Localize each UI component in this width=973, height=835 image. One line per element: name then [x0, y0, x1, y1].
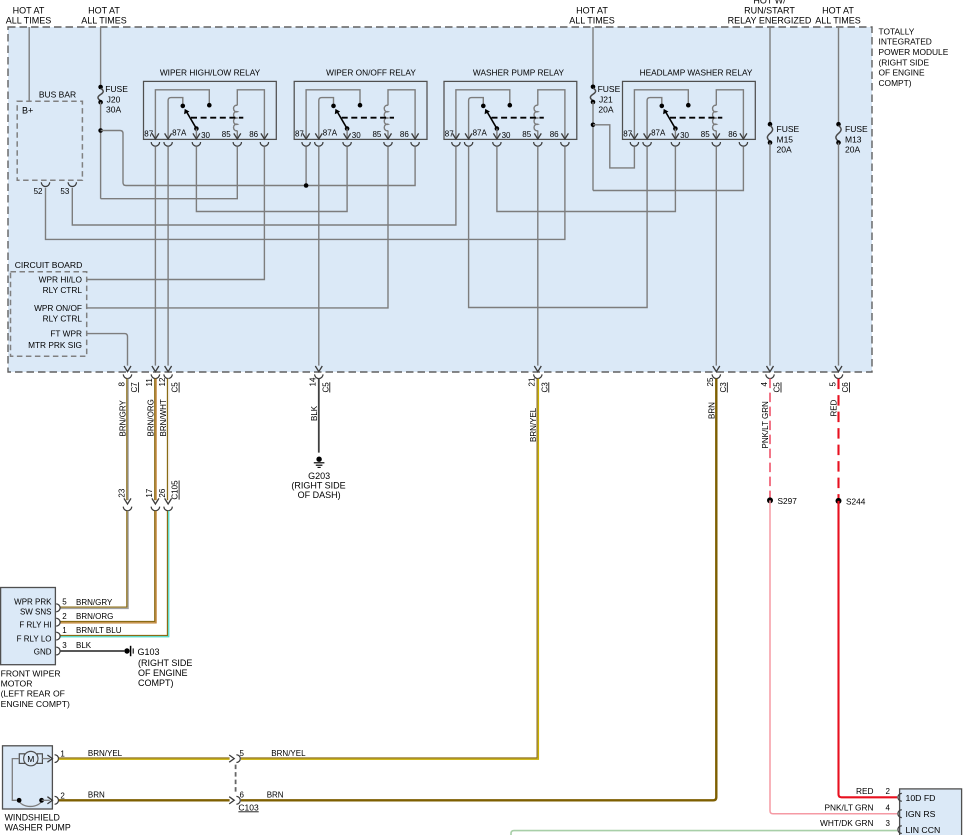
svg-text:20A: 20A: [598, 105, 613, 115]
svg-text:ALL TIMES: ALL TIMES: [81, 16, 127, 26]
svg-text:BLK: BLK: [310, 405, 319, 421]
svg-text:30A: 30A: [106, 105, 121, 115]
svg-text:RED: RED: [856, 786, 874, 796]
svg-text:87A: 87A: [172, 128, 187, 137]
svg-text:OF ENGINE: OF ENGINE: [879, 68, 925, 78]
connector output pin 14 C5: [309, 366, 331, 393]
wire: fuse J21 to relay K4 pin 87: [593, 125, 634, 168]
svg-text:FUSE: FUSE: [105, 84, 128, 94]
washer pump motor symbol: [19, 751, 42, 765]
wire: relay K2 pin 87A to output 14: [318, 146, 320, 365]
connector C105: [117, 480, 179, 511]
module pin 3 (WHT/DK GRN LIN CCN): [820, 818, 902, 833]
wire: coil top rail to pin 86: [388, 90, 415, 140]
contact dot (common feed): [686, 103, 691, 108]
wire: pin 87 to common contact rail: [456, 90, 510, 140]
svg-text:BRN/ORG: BRN/ORG: [146, 399, 155, 436]
svg-text:87A: 87A: [323, 128, 338, 137]
svg-text:17: 17: [145, 488, 154, 497]
svg-text:BRN: BRN: [267, 791, 284, 800]
svg-text:2: 2: [62, 612, 67, 621]
bus bar B+: [17, 90, 82, 181]
svg-text:B+: B+: [22, 106, 33, 116]
svg-text:GND: GND: [34, 647, 52, 656]
wire: coil bottom to pin 85: [387, 131, 389, 140]
svg-text:25: 25: [706, 377, 715, 386]
svg-text:HOT AT: HOT AT: [822, 6, 854, 16]
svg-text:BRN/ORG: BRN/ORG: [76, 612, 113, 621]
svg-text:M: M: [27, 754, 34, 764]
svg-text:C5: C5: [321, 382, 330, 393]
motor pin 1 F RLY LO: [56, 626, 122, 640]
svg-text:WIPER HIGH/LOW RELAY: WIPER HIGH/LOW RELAY: [160, 68, 261, 78]
svg-text:MOTOR: MOTOR: [1, 679, 33, 689]
svg-text:2: 2: [886, 787, 891, 796]
svg-text:BRN/WHT: BRN/WHT: [159, 399, 168, 436]
relay K3 WASHER PUMP RELAY: [444, 68, 577, 147]
svg-text:PNK/LT GRN: PNK/LT GRN: [761, 401, 770, 448]
pin 86 arrow and connector cup: [412, 133, 419, 139]
contact dot (common feed): [207, 103, 212, 108]
svg-text:30: 30: [201, 131, 210, 140]
contact dot (pin 30 pivot): [673, 126, 678, 131]
wire BRN/GRY: C105-23 to motor pin 5: [60, 511, 127, 607]
svg-text:23: 23: [117, 488, 126, 497]
module pin 4 (BLK/WHT, clipped): [837, 833, 902, 835]
svg-text:85: 85: [222, 130, 231, 139]
module pin 4 (PNK/LT GRN IGN RS): [824, 802, 901, 817]
svg-text:85: 85: [701, 130, 710, 139]
connector output pin 21 C3: [528, 366, 550, 393]
svg-text:RED: RED: [830, 399, 839, 416]
relay coil: [713, 105, 717, 130]
wire: WPR HI/LO RLY CTRL to relay K1 pin 86: [87, 146, 265, 279]
svg-text:(RIGHT SIDE: (RIGHT SIDE: [138, 658, 192, 668]
svg-text:BLK: BLK: [76, 641, 92, 650]
motor pin 3 GND: [56, 641, 92, 655]
svg-text:C5: C5: [773, 382, 782, 393]
svg-text:1: 1: [60, 750, 65, 759]
wire: feed to fuse M15: [769, 27, 771, 124]
contact dot (common feed): [508, 103, 513, 108]
wire: pin 87 to common contact rail: [634, 90, 688, 140]
wire: coil top rail to pin 86: [716, 90, 743, 140]
washer pump pin 1: [55, 749, 123, 763]
connector output pin 5 C6: [828, 366, 850, 393]
svg-text:RUN/START: RUN/START: [744, 6, 795, 16]
relay box: [444, 81, 577, 139]
svg-text:2: 2: [60, 791, 65, 800]
pin 87 arrow and connector cup: [152, 133, 159, 139]
contact dot (common feed): [358, 103, 363, 108]
svg-text:TOTALLY: TOTALLY: [879, 26, 915, 36]
wire: relay K1 pin 87A to output 12: [167, 146, 169, 365]
fuse J20 30A: [98, 84, 128, 115]
svg-text:F RLY HI: F RLY HI: [19, 621, 51, 630]
svg-text:BRN/YEL: BRN/YEL: [529, 407, 538, 442]
wire BRN/YEL: output 21 down to washer pump run: [241, 379, 537, 758]
wire: pin 87A to NC contact: [168, 98, 183, 140]
wire: feed to fuse J21: [592, 27, 594, 87]
wire BRN/LT BLU: C105-26 to motor pin 1: [60, 511, 168, 636]
svg-text:ALL TIMES: ALL TIMES: [6, 16, 52, 26]
wire: fuse M15 to output 4: [769, 143, 771, 366]
svg-text:CIRCUIT BOARD: CIRCUIT BOARD: [15, 260, 83, 270]
pin 86 arrow and connector cup: [561, 133, 568, 139]
svg-text:WPR PRK: WPR PRK: [14, 597, 52, 606]
pin 87 arrow and connector cup: [452, 133, 459, 139]
svg-text:LIN CCN: LIN CCN: [906, 825, 941, 835]
svg-text:HEADLAMP WASHER RELAY: HEADLAMP WASHER RELAY: [640, 68, 753, 78]
wire: coil top rail to pin 86: [538, 90, 565, 140]
svg-text:4: 4: [760, 382, 769, 387]
svg-text:C5: C5: [171, 382, 180, 393]
svg-text:30: 30: [680, 131, 689, 140]
svg-text:M15: M15: [777, 134, 794, 144]
switch armature arm: [487, 111, 497, 129]
svg-text:87A: 87A: [473, 128, 488, 137]
connector output pin 25 C3: [706, 366, 728, 393]
bus bar pin 52: [34, 182, 50, 196]
svg-text:WPR HI/LO: WPR HI/LO: [39, 275, 83, 285]
relay K1 WIPER HIGH/LOW RELAY: [144, 68, 277, 147]
svg-text:S297: S297: [778, 496, 798, 506]
switch armature arm: [665, 111, 675, 129]
svg-text:3: 3: [886, 819, 891, 828]
wire: relay K1 pin 87 to output 11: [154, 146, 156, 365]
wire: relay K3 pin 85 to output 21: [537, 146, 539, 365]
svg-text:11: 11: [145, 378, 154, 387]
label: HOT AT ALL TIMES (bus bar feed): [6, 6, 52, 26]
svg-text:26: 26: [158, 488, 167, 497]
wire: pin 87A to NC contact: [469, 98, 484, 140]
relay box: [623, 81, 756, 139]
wire BLK: motor pin 3 to ground G103: [60, 650, 125, 652]
svg-text:86: 86: [400, 130, 409, 139]
dashed actuation link arm-to-coil: [342, 117, 394, 119]
svg-text:SW SNS: SW SNS: [20, 607, 52, 616]
wire: pin 87 to common contact rail: [306, 90, 360, 140]
svg-text:ALL TIMES: ALL TIMES: [815, 16, 861, 26]
pin 87A arrow and connector cup: [315, 133, 322, 139]
pin 30 arrow and connector cup: [493, 133, 500, 139]
connector output pin 11: [145, 366, 159, 387]
svg-text:20A: 20A: [777, 145, 792, 155]
wire BRN/ORG: C105-17 to motor pin 2: [60, 511, 155, 622]
wire: feed to fuse M13: [838, 27, 840, 124]
svg-text:52: 52: [34, 187, 43, 196]
splice S297: [767, 496, 797, 506]
label: HOT AT ALL TIMES (fuse J20 feed): [81, 6, 127, 26]
connector output pin 12 C5: [158, 366, 180, 393]
wire: fuse J20 to relay K2 pins 87/86: [101, 131, 416, 186]
svg-text:10D FD: 10D FD: [906, 793, 936, 803]
motor pin 2 F RLY HI: [56, 612, 113, 626]
circuit board: [11, 260, 87, 356]
switch armature arm: [186, 111, 196, 129]
fuse M13 20A: [836, 122, 868, 155]
wire: pin 87A to NC contact: [319, 98, 334, 140]
svg-text:BUS BAR: BUS BAR: [39, 90, 76, 100]
svg-text:MTR PRK SIG: MTR PRK SIG: [28, 340, 82, 350]
pin 30 arrow and connector cup: [193, 133, 200, 139]
svg-text:FT WPR: FT WPR: [50, 329, 82, 339]
splice S244: [836, 496, 866, 506]
svg-text:12: 12: [158, 377, 167, 386]
svg-text:20A: 20A: [845, 145, 860, 155]
svg-text:C7: C7: [130, 382, 139, 393]
contact dot (87A throw): [181, 104, 186, 109]
wire: FT WPR MTR PRK SIG to output 8: [87, 334, 128, 366]
pin 87 arrow and connector cup: [303, 133, 310, 139]
svg-text:RLY CTRL: RLY CTRL: [43, 285, 83, 295]
pin 87 arrow and connector cup: [631, 133, 638, 139]
dashed actuation link arm-to-coil: [670, 117, 722, 119]
wire: pivot to pin 30: [346, 129, 348, 140]
TIPM label: [879, 26, 949, 88]
wire RED: splice S244 to 10D FD: [839, 501, 898, 797]
module 10D FD / IGN RS / LIN CCN box: [900, 789, 962, 835]
wire: fuse M13 to output 5: [838, 143, 840, 366]
svg-text:1: 1: [62, 626, 67, 635]
svg-text:53: 53: [60, 187, 69, 196]
svg-text:85: 85: [522, 130, 531, 139]
wire: coil bottom to pin 85: [537, 131, 539, 140]
svg-text:WINDSHIELD: WINDSHIELD: [5, 813, 60, 823]
wire: WPR ON/OF RLY CTRL to relay K2 pin 85: [87, 146, 388, 308]
svg-text:FRONT WIPER: FRONT WIPER: [1, 669, 61, 679]
windshield washer pump: [3, 746, 71, 833]
wire: coil bottom to pin 85: [715, 131, 717, 140]
svg-text:HOT AT: HOT AT: [13, 6, 45, 16]
svg-text:BRN/GRY: BRN/GRY: [76, 598, 113, 607]
pin 30 arrow and connector cup: [672, 133, 679, 139]
svg-text:5: 5: [828, 382, 837, 387]
label: HOT AT ALL TIMES (fuse J21 feed): [569, 6, 615, 26]
pin 87A arrow and connector cup: [465, 133, 472, 139]
svg-text:BRN/YEL: BRN/YEL: [271, 749, 306, 758]
label: HOT W/ RUN/START RELAY ENERGIZED (fuse M15 feed): [728, 0, 812, 26]
svg-text:BRN: BRN: [707, 402, 716, 419]
svg-text:(RIGHT SIDE: (RIGHT SIDE: [879, 57, 930, 67]
wire RED: output 5 to splice S244: [837, 379, 839, 501]
switch armature arm: [337, 111, 347, 129]
svg-text:4: 4: [886, 803, 891, 812]
svg-text:S244: S244: [846, 496, 866, 506]
label: HOT AT ALL TIMES (fuse M13 feed): [815, 6, 861, 26]
pin 85 arrow and connector cup: [713, 133, 720, 139]
wire BLK: output 14 to ground G203: [318, 379, 320, 453]
wire: relay K4 pin 85 to output 25: [715, 146, 717, 365]
Totally Integrated Power Module (TIPM) dashed box: [8, 27, 872, 372]
svg-text:RELAY ENERGIZED: RELAY ENERGIZED: [728, 16, 812, 26]
dashed actuation link arm-to-coil: [492, 117, 544, 119]
wire: fuse J20 to relay K1 pin 85: [101, 146, 238, 198]
svg-text:FUSE: FUSE: [777, 124, 800, 134]
pin 87A arrow and connector cup: [165, 133, 172, 139]
svg-text:FUSE: FUSE: [598, 84, 621, 94]
svg-text:COMPT): COMPT): [138, 678, 174, 688]
svg-text:IGN RS: IGN RS: [906, 809, 936, 819]
svg-text:M13: M13: [845, 134, 862, 144]
relay K2 WIPER ON/OFF RELAY: [294, 68, 427, 147]
wire: feed to fuse J20: [100, 27, 102, 87]
wire: bus bar 53 to relay K3 pin 87: [72, 146, 456, 225]
svg-text:J21: J21: [599, 94, 613, 104]
fuse J21 20A: [590, 84, 620, 115]
svg-text:G103: G103: [138, 647, 160, 657]
junction: relay K2 pin 87 tap: [305, 146, 307, 185]
front wiper motor: [1, 588, 70, 709]
wire: pin 87 to common contact rail: [155, 90, 209, 140]
svg-text:WASHER PUMP: WASHER PUMP: [5, 822, 71, 832]
svg-text:3: 3: [62, 641, 67, 650]
connector C103: [229, 749, 259, 813]
svg-text:POWER MODULE: POWER MODULE: [879, 47, 949, 57]
svg-text:21: 21: [528, 377, 537, 386]
wire: pin 87A to NC contact: [647, 98, 662, 140]
bus bar pin 53: [60, 182, 76, 196]
svg-text:C3: C3: [719, 382, 728, 393]
svg-text:6: 6: [240, 791, 245, 800]
svg-text:OF DASH): OF DASH): [298, 490, 341, 500]
pin 86 arrow and connector cup: [261, 133, 268, 139]
svg-text:HOT AT: HOT AT: [576, 6, 608, 16]
svg-text:5: 5: [62, 598, 67, 607]
svg-text:85: 85: [372, 130, 381, 139]
wire BRN/WHT: output 12 to C105-26: [166, 379, 168, 501]
wire: fuse J21 to relay K4 pin 86: [593, 146, 743, 190]
wire: relay K3 pin 87A to relay K4 pin 87A: [469, 146, 647, 307]
module pin 2 (RED 10D FD): [856, 786, 902, 801]
pin 86 arrow and connector cup: [740, 133, 747, 139]
motor pin 5 WPR PRK SW SNS: [56, 598, 113, 612]
wire: coil top rail to pin 86: [237, 90, 264, 140]
svg-text:87A: 87A: [651, 128, 666, 137]
connector output pin 4 C5: [760, 366, 782, 393]
contact dot (pin 30 pivot): [345, 126, 350, 131]
relay coil: [384, 105, 388, 130]
svg-text:C103: C103: [238, 802, 259, 812]
svg-text:30: 30: [502, 131, 511, 140]
wire BRN/YEL: pump pin 1 to C103-5: [59, 757, 230, 759]
wire PNK/LT GRN: output 4 to splice S297: [769, 379, 771, 501]
svg-text:FUSE: FUSE: [845, 124, 868, 134]
wire WHT/DK GRN: to LIN CCN: [511, 831, 897, 835]
svg-text:WASHER PUMP RELAY: WASHER PUMP RELAY: [473, 68, 565, 78]
wire BRN: pump pin 2 to C103-6: [59, 799, 230, 801]
wire: bus bar 52 to relay K3 pin 86: [46, 146, 565, 239]
connector output pin 8 C7: [117, 366, 139, 393]
washer pump internal wiring: [12, 759, 19, 801]
pin 85 arrow and connector cup: [234, 133, 241, 139]
pin 85 arrow and connector cup: [534, 133, 541, 139]
dashed actuation link arm-to-coil: [191, 117, 243, 119]
svg-text:(LEFT REAR OF: (LEFT REAR OF: [1, 689, 65, 699]
svg-text:PNK/LT GRN: PNK/LT GRN: [824, 802, 873, 812]
relay K4 HEADLAMP WASHER RELAY: [623, 68, 756, 147]
svg-text:86: 86: [550, 130, 559, 139]
pin 85 arrow and connector cup: [385, 133, 392, 139]
ground G203: [291, 457, 345, 501]
svg-text:ALL TIMES: ALL TIMES: [569, 16, 615, 26]
svg-text:C6: C6: [841, 382, 850, 393]
wire: pivot to pin 30: [195, 129, 197, 140]
svg-text:F RLY LO: F RLY LO: [17, 635, 52, 644]
ground G103: [124, 646, 192, 688]
svg-text:BRN/LT BLU: BRN/LT BLU: [76, 626, 122, 635]
wire: fuse J20 branch junction: [100, 102, 102, 199]
svg-text:86: 86: [728, 130, 737, 139]
svg-text:BRN/GRY: BRN/GRY: [119, 400, 128, 437]
svg-text:8: 8: [117, 382, 126, 387]
wire: feed to bus bar: [28, 27, 30, 101]
svg-text:BRN: BRN: [88, 791, 105, 800]
svg-text:J20: J20: [107, 94, 121, 104]
svg-text:G203: G203: [308, 471, 330, 481]
pin 87A arrow and connector cup: [644, 133, 651, 139]
pin 30 arrow and connector cup: [344, 133, 351, 139]
svg-text:RLY CTRL: RLY CTRL: [43, 314, 83, 324]
svg-text:5: 5: [240, 749, 245, 758]
svg-text:BRN/YEL: BRN/YEL: [88, 749, 123, 758]
svg-text:C3: C3: [540, 382, 549, 393]
wire: pivot to pin 30: [674, 129, 676, 140]
svg-text:INTEGRATED: INTEGRATED: [879, 37, 932, 47]
fuse M15 20A: [767, 122, 799, 155]
contact dot (pin 30 pivot): [495, 126, 500, 131]
wire: fuse J21 junction: [592, 102, 594, 191]
relay box: [144, 81, 277, 139]
svg-text:C105: C105: [171, 480, 180, 500]
relay box: [294, 81, 427, 139]
relay coil: [234, 105, 238, 131]
washer pump pin 2: [55, 791, 105, 805]
wire: relay K1 pin 30 to relay K2 pin 30: [196, 146, 347, 211]
svg-text:WIPER ON/OFF RELAY: WIPER ON/OFF RELAY: [326, 68, 416, 78]
svg-text:WHT/DK GRN: WHT/DK GRN: [820, 818, 873, 828]
relay coil: [534, 105, 538, 130]
wire PNK/LT GRN: splice S297 to IGN RS: [770, 500, 897, 813]
contact dot (87A throw): [481, 104, 486, 109]
svg-text:COMPT): COMPT): [879, 78, 912, 88]
contact dot (87A throw): [331, 104, 336, 109]
wire: pivot to pin 30: [496, 129, 498, 140]
svg-text:HOT AT: HOT AT: [88, 6, 120, 16]
svg-text:14: 14: [309, 377, 318, 386]
wire BRN: output 25 down to washer pump run: [241, 379, 716, 801]
svg-text:OF ENGINE: OF ENGINE: [138, 668, 188, 678]
svg-text:ENGINE COMPT): ENGINE COMPT): [1, 699, 70, 709]
wire: coil bottom to pin 85: [236, 131, 238, 140]
svg-text:WPR ON/OF: WPR ON/OF: [34, 303, 82, 313]
svg-text:86: 86: [249, 130, 258, 139]
wire BRN/ORG: output 11 to C105-17: [154, 379, 156, 501]
svg-text:(RIGHT SIDE: (RIGHT SIDE: [291, 481, 345, 491]
svg-text:30: 30: [352, 131, 361, 140]
wire BRN/GRY: output 8 to C105-23: [126, 379, 128, 501]
contact dot (pin 30 pivot): [194, 126, 199, 131]
wire: relay K3 pin 30 to relay K4 pin 30: [497, 146, 676, 211]
contact dot (87A throw): [660, 104, 665, 109]
